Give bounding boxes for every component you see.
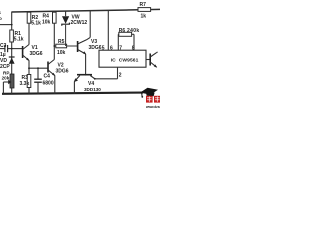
svg-text:5.1k: 5.1k xyxy=(14,37,24,43)
svg-text:3.3k: 3.3k xyxy=(20,81,30,87)
capacitor C4 xyxy=(37,68,39,79)
wire: top power rail xyxy=(12,9,160,12)
pin 6 xyxy=(107,10,109,50)
transistor V2 3DG6 xyxy=(47,62,49,73)
svg-text:5.1k: 5.1k xyxy=(31,21,41,27)
pin 7 xyxy=(117,34,119,50)
watermark logo (black cap) xyxy=(140,88,158,95)
svg-text:IC: IC xyxy=(111,58,116,64)
resistor R5 xyxy=(54,45,77,47)
potentiometer RP xyxy=(10,74,14,88)
wire: V5 collector stub xyxy=(157,51,158,54)
svg-text:o: o xyxy=(0,16,2,21)
svg-text:3DG6: 3DG6 xyxy=(56,69,69,75)
svg-text:10k: 10k xyxy=(57,50,66,56)
junction dots xyxy=(11,24,13,26)
resistor R6 xyxy=(118,33,134,35)
svg-text:R5: R5 xyxy=(58,39,65,45)
IC CW9561 box xyxy=(99,50,146,67)
pin 2 xyxy=(117,67,119,79)
svg-text:2CW12: 2CW12 xyxy=(71,20,88,26)
svg-text:www.dzsc: www.dzsc xyxy=(145,105,160,109)
watermark red characters xyxy=(146,96,160,103)
transistor V5 (output, right edge) xyxy=(146,59,150,61)
pin 8 xyxy=(133,34,135,50)
resistor R7 xyxy=(138,8,151,12)
svg-text:C3: C3 xyxy=(0,43,7,49)
svg-text:2: 2 xyxy=(119,72,122,78)
svg-text:240k: 240k xyxy=(127,28,140,34)
svg-text:10k: 10k xyxy=(42,19,51,25)
svg-text:R6: R6 xyxy=(119,28,126,34)
resistor R4 xyxy=(53,12,55,60)
transistor V1 3DG6 xyxy=(22,46,24,58)
zener diode VW 2CW12 xyxy=(65,11,67,16)
svg-text:7: 7 xyxy=(119,45,122,51)
transistor V4 3DD130 xyxy=(77,74,92,76)
wire: bottom ground rail xyxy=(2,93,143,94)
resistor R2 xyxy=(28,12,30,45)
wire: V3 emitter down to V4 base xyxy=(85,54,87,74)
svg-text:3DG6: 3DG6 xyxy=(30,51,43,57)
svg-text:CW9561: CW9561 xyxy=(119,58,139,64)
svg-text:2CP: 2CP xyxy=(0,64,10,70)
wire: left column vertical x=11.7 xyxy=(11,12,13,94)
wire: V3 collector to top rail xyxy=(89,11,91,38)
resistor R3 xyxy=(28,68,30,94)
diode VD (2CP) xyxy=(9,56,15,58)
svg-text:6: 6 xyxy=(110,45,113,51)
svg-text:1k: 1k xyxy=(141,13,147,19)
svg-text:6800: 6800 xyxy=(43,81,54,87)
wire: pin2 to V4 collector xyxy=(95,78,118,80)
svg-text:1µ: 1µ xyxy=(0,52,6,58)
svg-text:8: 8 xyxy=(132,45,135,51)
svg-text:3DD130: 3DD130 xyxy=(84,87,101,92)
svg-text:C4: C4 xyxy=(44,74,51,80)
svg-text:c: c xyxy=(0,10,2,15)
svg-text:20k: 20k xyxy=(2,75,10,80)
svg-text:5: 5 xyxy=(102,45,105,51)
svg-text:R7: R7 xyxy=(140,2,147,8)
wire: input feed to left column xyxy=(0,24,12,26)
resistor R1 xyxy=(10,30,14,42)
capacitor C3 (input coupling) xyxy=(0,48,5,50)
wire: V1 emitter node to V2 base xyxy=(28,61,30,69)
transistor V3 3DG6 xyxy=(77,41,79,52)
